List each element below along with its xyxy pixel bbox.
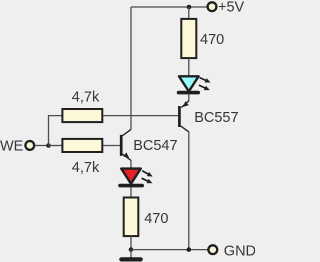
node WE junction [46,143,51,148]
node GND junction right [187,247,192,252]
wire R3 to Q2 base [103,145,120,147]
wire LED2 to R4 [130,187,132,197]
svg-text:BC557: BC557 [194,110,238,126]
LED D1 cathode bar [179,91,199,95]
terminal WE pad [25,141,34,150]
wire R1 to LED1 [188,58,190,76]
svg-text:470: 470 [144,211,168,227]
ground symbol [121,257,140,261]
transistor Q2 emitter [122,154,131,160]
transistor Q2 emitter arrow (NPN) [123,152,131,159]
resistor R3 4,7k (lower) [62,139,102,152]
svg-text:WE: WE [0,138,24,154]
wire junction to R1 [188,7,190,19]
wire WE to junction [35,145,49,147]
transistor Q1 base bar [178,106,181,127]
node junction on +5V rail [187,5,192,10]
svg-text:470: 470 [200,32,224,48]
wire junction to ground symbol [130,250,132,258]
transistor Q2 BC547 base bar [120,135,123,156]
wire junction up to R2 [49,116,63,146]
resistor R1 470 (top) [181,19,196,58]
LED D2 light arrow 2 [141,176,154,185]
wire R2 to Q1 base [103,115,178,117]
LED D1 light arrow 2 [198,83,211,92]
transistor Q1 BC557 emitter [181,101,189,108]
resistor R2 4,7k (upper) [62,109,102,122]
node GND junction left [129,247,134,252]
LED D2 cathode bar [120,184,142,188]
transistor Q1 emitter arrow (PNP) [181,101,189,109]
LED D2 red triangle [121,169,141,184]
svg-text:+5V: +5V [218,0,245,16]
wire bottom GND rail [131,249,209,251]
svg-text:4,7k: 4,7k [72,160,100,176]
transistor Q2 collector [122,129,131,135]
resistor R4 470 (bottom) [124,198,139,237]
wire R4 to GND junction [130,236,132,250]
wire Q1 collector to GND rail [188,132,190,250]
wire Q2 emitter to LED2 [130,160,132,168]
svg-text:GND: GND [224,243,255,259]
terminal +5V pad [208,2,217,11]
svg-text:BC547: BC547 [133,138,177,154]
wire LED1 to Q1 emitter [188,94,190,101]
terminal GND pad [208,245,217,254]
LED D1 cyan triangle [179,76,199,91]
LED D2 light arrow 1 [141,169,154,179]
wire +5V top rail [131,6,207,8]
wire Q2 collector up to top rail [130,7,132,130]
svg-text:4,7k: 4,7k [72,90,100,106]
wire junction to R3 [49,145,63,147]
transistor Q1 collector [181,126,189,132]
LED D1 light arrow 1 [199,75,212,84]
